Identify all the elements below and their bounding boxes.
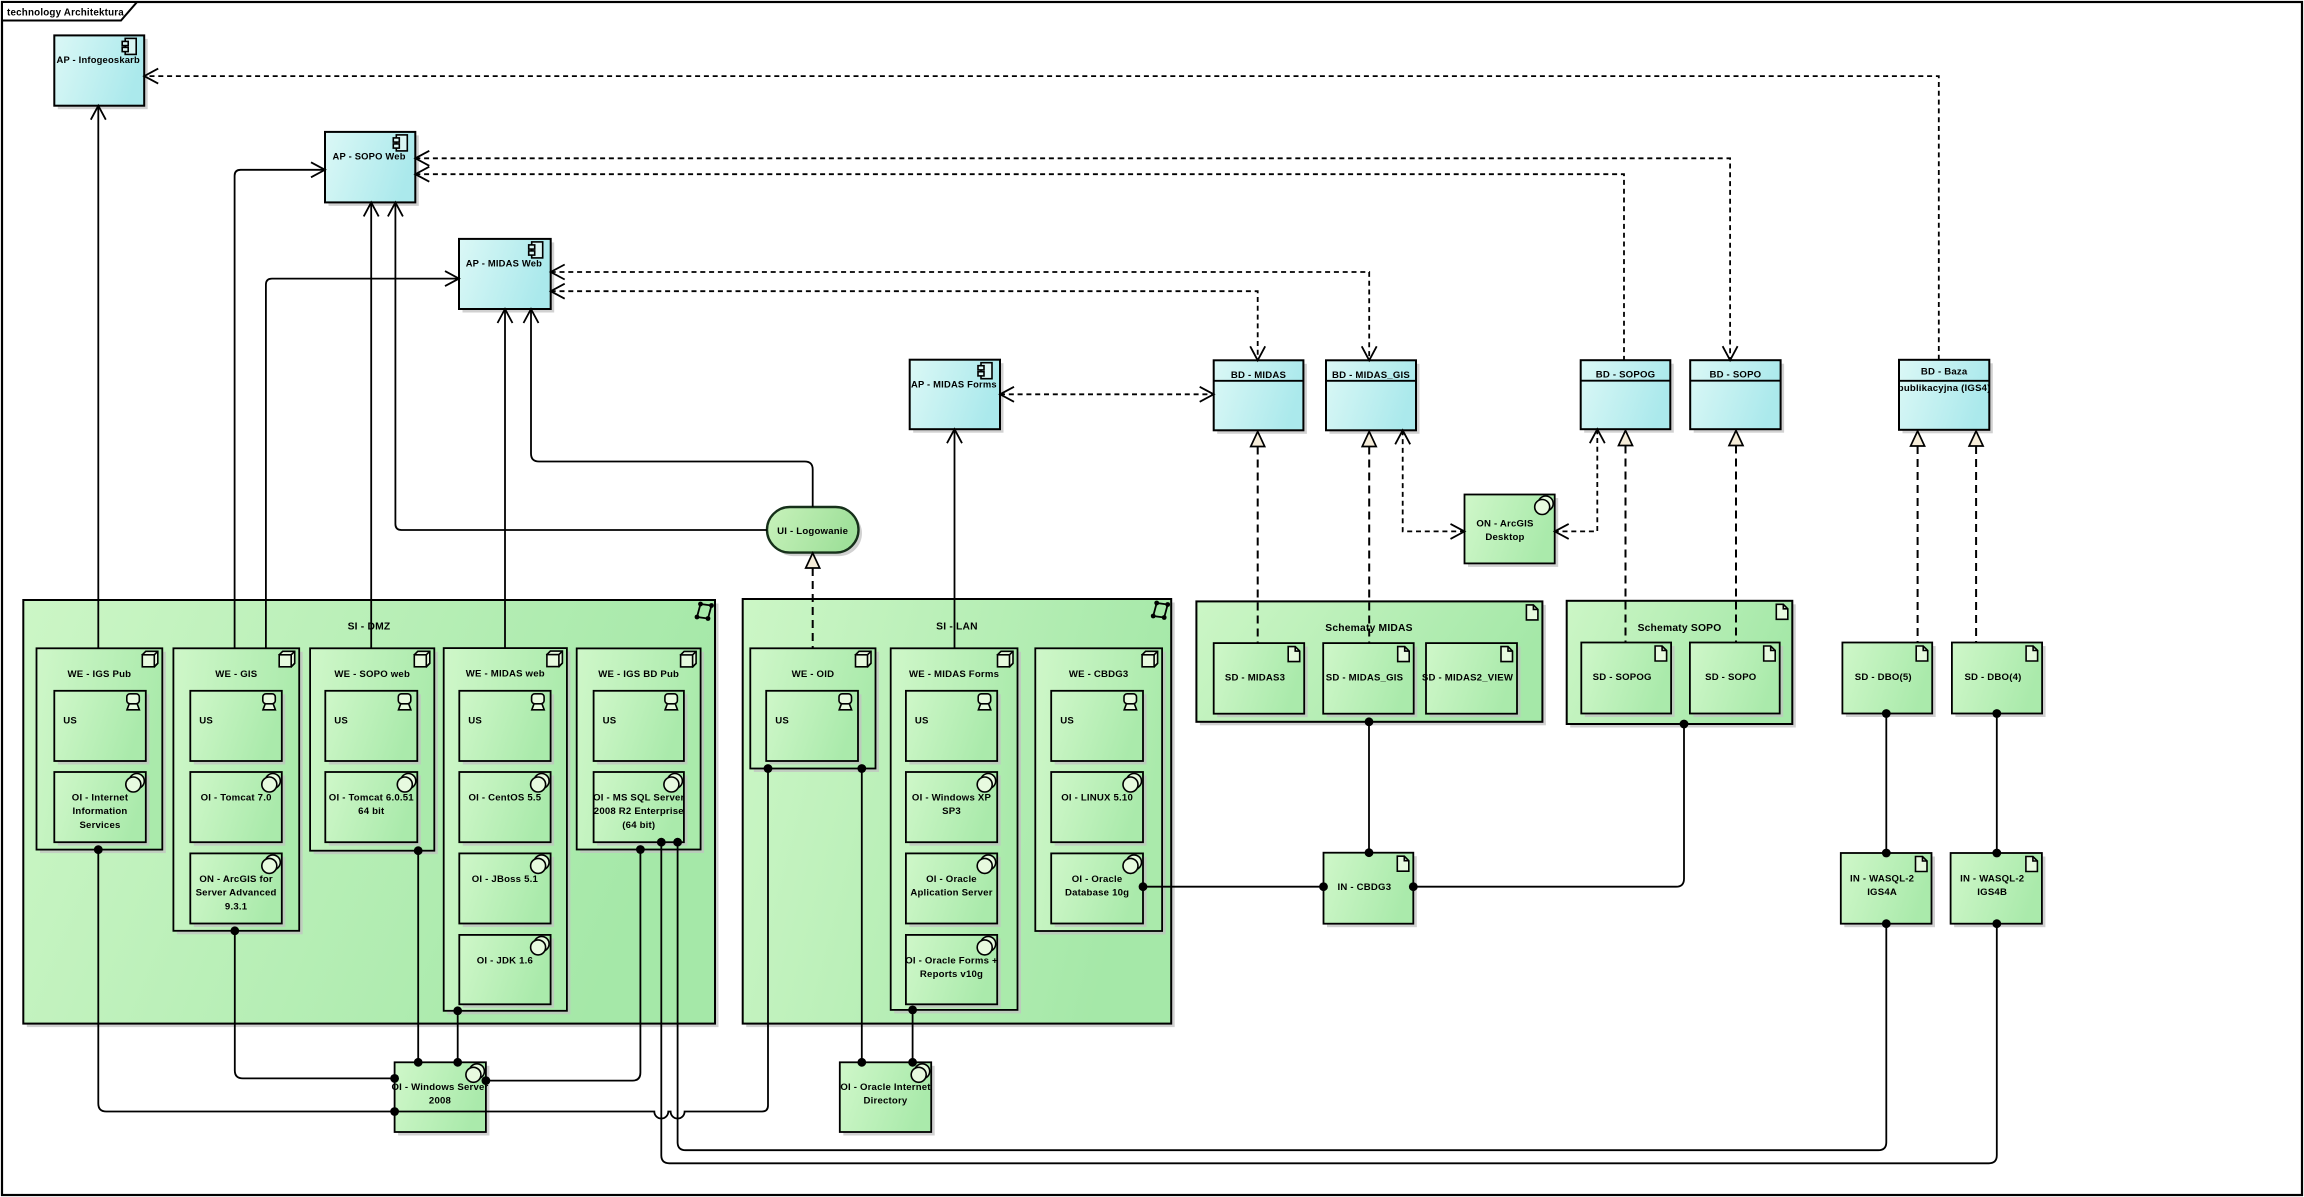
wire SD - DBO(4) to IN - WASQL-2 IGS4B [1996, 714, 1998, 854]
device WE - OID [750, 648, 879, 772]
system software OI - CentOS 5.5 [459, 772, 554, 846]
svg-text:OI - JBoss 5.1: OI - JBoss 5.1 [472, 874, 539, 885]
svg-text:IN - WASQL-2: IN - WASQL-2 [1850, 873, 1914, 884]
wire WE - MIDAS web to AP - MIDAS Web (bottom) [504, 309, 506, 648]
svg-text:64 bit: 64 bit [358, 806, 385, 817]
device WE - IGS Pub [37, 648, 166, 853]
svg-text:US: US [915, 715, 929, 726]
svg-text:IN - WASQL-2: IN - WASQL-2 [1960, 873, 2024, 884]
realization SD - MIDAS3 to BD - MIDAS [1257, 447, 1259, 644]
svg-text:WE - GIS: WE - GIS [215, 669, 258, 680]
artifact IN - WASQL-2 IGS4A [1841, 853, 1935, 927]
svg-text:OI - Oracle: OI - Oracle [926, 874, 977, 885]
artifact group Schematy MIDAS [1196, 601, 1546, 725]
svg-text:Database 10g: Database 10g [1065, 888, 1129, 899]
wire WE - GIS to AP - SOPO Web (left) [235, 170, 325, 649]
artifact SD - MIDAS_GIS [1323, 643, 1417, 717]
wire Schematy MIDAS to IN - CBDG3 [1368, 722, 1370, 853]
system software OI - Tomcat 6.0.51 64 bit [325, 772, 421, 846]
artifact SD - MIDAS3 [1214, 643, 1308, 717]
svg-text:publikacyjna (IGS4): publikacyjna (IGS4) [1898, 383, 1991, 394]
system software ON - ArcGIS Desktop [1465, 495, 1559, 567]
svg-text:OI - MS SQL Server: OI - MS SQL Server [593, 793, 684, 804]
svg-text:SD - DBO(5): SD - DBO(5) [1855, 672, 1912, 683]
dashed wire BD - MIDAS_GIS to ON - ArcGIS Desktop [1403, 430, 1465, 531]
svg-text:SD - MIDAS_GIS: SD - MIDAS_GIS [1326, 672, 1404, 683]
svg-text:BD - MIDAS: BD - MIDAS [1231, 370, 1287, 381]
wire IN - CBDG3 to Schematy SOPO [1413, 724, 1684, 887]
svg-text:US: US [199, 715, 213, 726]
component AP - Infogeoskarb [54, 35, 147, 109]
device WE - MIDAS web [444, 648, 571, 1014]
system software OI - JBoss 5.1 [459, 853, 554, 927]
svg-text:2008: 2008 [429, 1096, 452, 1107]
svg-text:OI - Oracle Internet: OI - Oracle Internet [840, 1082, 931, 1093]
use case UI - Logowanie [767, 507, 862, 556]
system software OI - Oracle Forms + Reports v10g [905, 935, 1000, 1008]
svg-text:Aplication Server: Aplication Server [910, 888, 992, 899]
wire OI - Oracle Database 10g to IN - CBDG3 [1143, 886, 1324, 888]
artifact SD - DBO(4) [1952, 643, 2046, 718]
wire WE - SOPO web to OI - Windows Server 2008 [417, 851, 419, 1063]
wire OI - MS SQL Server to IN - WASQL-2 IGS4A (upper route) [678, 842, 1887, 1150]
node US (WE - GIS) [190, 691, 285, 765]
svg-text:OI - Internet: OI - Internet [72, 793, 129, 804]
svg-text:US: US [63, 715, 77, 726]
wire WE - IGS Pub to AP - Infogeoskarb [97, 106, 99, 649]
svg-text:OI - Windows Server: OI - Windows Server [391, 1082, 488, 1093]
wire WE - GIS to OI - Windows Server 2008 [235, 931, 395, 1079]
svg-text:OI - JDK 1.6: OI - JDK 1.6 [477, 955, 533, 966]
system software OI - Windows Server 2008 [391, 1062, 489, 1135]
component AP - MIDAS Forms [910, 360, 1004, 433]
svg-text:IGS4A: IGS4A [1867, 887, 1897, 898]
svg-text:IGS4B: IGS4B [1977, 887, 2007, 898]
dashed wire BD - MIDAS to AP - MIDAS Web [551, 291, 1258, 360]
artifact SD - SOPOG [1581, 643, 1674, 718]
wire WE - OID to OI - Windows Server 2008 (with line hops) [395, 769, 768, 1119]
svg-text:Reports v10g: Reports v10g [920, 969, 983, 980]
svg-text:Directory: Directory [864, 1096, 908, 1107]
system software ON - ArcGIS for Server Advanced 9.3.1 [190, 853, 285, 927]
system software OI - Windows XP SP3 [906, 772, 1001, 846]
realization SD - MIDAS_GIS to BD - MIDAS_GIS [1368, 447, 1370, 644]
svg-text:WE - MIDAS Forms: WE - MIDAS Forms [909, 669, 999, 680]
dashed wire BD - SOPOG to ON - ArcGIS Desktop [1555, 429, 1598, 531]
wire OI - MS SQL Server to IN - WASQL-2 IGS4B (lower route) [661, 842, 1997, 1163]
svg-text:technology Architektura: technology Architektura [7, 8, 124, 19]
realization SD - DBO(5) to BD - Baza publikacyjna [1917, 446, 1919, 643]
artifact IN - WASQL-2 IGS4B [1951, 853, 2046, 927]
svg-text:(64 bit): (64 bit) [622, 820, 655, 831]
system software OI - Oracle Aplication Server [906, 853, 1001, 927]
svg-text:SI - LAN: SI - LAN [936, 622, 978, 633]
realization SD - SOPOG to BD - SOPOG [1625, 446, 1627, 643]
realization WE - OID to UI - Logowanie [812, 568, 814, 648]
wire WE - OID to OI - Oracle Internet Directory [861, 769, 863, 1063]
system software OI - Oracle Database 10g [1051, 853, 1146, 927]
wire UI - Logowanie to AP - SOPO Web (bottom) [395, 202, 767, 530]
svg-text:Schematy SOPO: Schematy SOPO [1638, 623, 1722, 634]
svg-text:WE - MIDAS web: WE - MIDAS web [466, 669, 545, 680]
system software OI - Tomcat 7.0 [190, 772, 285, 846]
svg-text:SD - MIDAS2_VIEW: SD - MIDAS2_VIEW [1422, 672, 1514, 683]
svg-text:US: US [468, 715, 482, 726]
svg-text:OI - Oracle: OI - Oracle [1072, 874, 1123, 885]
node US (WE - IGS Pub) [54, 691, 149, 765]
artifact SD - DBO(5) [1842, 643, 1935, 718]
svg-text:BD - Baza: BD - Baza [1921, 366, 1968, 377]
execution environment SI - LAN [743, 599, 1175, 1027]
svg-text:US: US [1060, 715, 1074, 726]
database node BD - Baza [1898, 360, 1993, 434]
dashed wire BD - SOPOG to AP - SOPO Web [415, 174, 1624, 360]
node US (WE - MIDAS web) [459, 691, 554, 765]
svg-text:Information: Information [73, 806, 128, 817]
node US (WE - CBDG3) [1051, 691, 1146, 765]
svg-text:Server Advanced: Server Advanced [196, 888, 277, 899]
node US (WE - OID) [766, 691, 861, 765]
svg-text:OI - LINUX 5.10: OI - LINUX 5.10 [1061, 793, 1133, 804]
svg-text:UI - Logowanie: UI - Logowanie [777, 526, 848, 537]
frame tab label: technology Architektura [2, 2, 137, 21]
database node BD - MIDAS_GIS [1326, 360, 1420, 434]
svg-text:AP - Infogeoskarb: AP - Infogeoskarb [56, 54, 140, 65]
svg-text:OI - Windows XP: OI - Windows XP [912, 793, 992, 804]
execution environment SI - DMZ [23, 600, 718, 1027]
wire WE - GIS to AP - MIDAS Web (left) [266, 279, 459, 649]
system software OI - Internet Information Services [54, 772, 149, 846]
device WE - MIDAS Forms [891, 648, 1021, 1013]
svg-text:OI - Tomcat 6.0.51: OI - Tomcat 6.0.51 [329, 793, 414, 804]
svg-text:2008 R2 Enterprise: 2008 R2 Enterprise [594, 806, 684, 817]
wire WE - MIDAS web to OI - Windows Server 2008 [457, 1011, 459, 1063]
artifact IN - CBDG3 [1324, 853, 1417, 928]
svg-text:SD - SOPO: SD - SOPO [1705, 672, 1757, 683]
svg-text:OI - Tomcat 7.0: OI - Tomcat 7.0 [201, 793, 272, 804]
wire WE - IGS BD Pub to OI - Windows Server 2008 [486, 850, 641, 1081]
artifact group Schematy SOPO [1567, 601, 1796, 728]
svg-text:9.3.1: 9.3.1 [225, 901, 248, 912]
node US (WE - MIDAS Forms) [906, 691, 1001, 765]
svg-text:Services: Services [79, 820, 120, 831]
svg-text:WE - OID: WE - OID [792, 669, 835, 680]
database node BD - SOPO [1690, 360, 1784, 433]
system software OI - Oracle Internet Directory [840, 1062, 935, 1135]
svg-text:ON - ArcGIS: ON - ArcGIS [1476, 518, 1534, 529]
component AP - MIDAS Web [459, 239, 554, 313]
wire WE - IGS Pub to OI - Windows Server 2008 [98, 850, 394, 1112]
device WE - SOPO web [310, 648, 438, 854]
node US (WE - IGS BD Pub) [594, 691, 688, 765]
component AP - SOPO Web [325, 132, 419, 206]
svg-text:ON - ArcGIS for: ON - ArcGIS for [199, 874, 273, 885]
dashed wire BD - Baza publikacyjna to AP - Infogeoskarb [144, 76, 1939, 360]
realization SD - SOPO to BD - SOPO [1735, 446, 1737, 643]
svg-text:AP - SOPO Web: AP - SOPO Web [333, 151, 406, 162]
svg-text:US: US [334, 715, 348, 726]
svg-text:IN - CBDG3: IN - CBDG3 [1338, 882, 1392, 893]
node US (WE - SOPO web) [325, 691, 421, 765]
svg-text:Desktop: Desktop [1485, 532, 1524, 543]
svg-text:SI - DMZ: SI - DMZ [348, 622, 391, 633]
artifact SD - SOPO [1690, 643, 1783, 718]
svg-text:OI - Oracle Forms +: OI - Oracle Forms + [905, 955, 998, 966]
system software OI - LINUX 5.10 [1051, 772, 1146, 846]
svg-text:AP - MIDAS Web: AP - MIDAS Web [466, 258, 542, 269]
svg-text:SP3: SP3 [942, 806, 961, 817]
system software OI - MS SQL Server 2008 R2 Enterprise (64 bit) [593, 772, 687, 846]
wire WE - SOPO web to AP - SOPO Web (bottom) [370, 202, 372, 648]
device WE - CBDG3 [1035, 648, 1165, 934]
svg-text:US: US [775, 715, 789, 726]
wire SD - DBO(5) to IN - WASQL-2 IGS4A [1885, 714, 1887, 854]
device WE - GIS [173, 648, 302, 934]
svg-text:AP - MIDAS Forms: AP - MIDAS Forms [911, 379, 997, 390]
database node BD - MIDAS [1214, 360, 1307, 434]
svg-text:US: US [603, 715, 617, 726]
svg-text:WE - IGS BD Pub: WE - IGS BD Pub [598, 669, 679, 680]
svg-text:BD - MIDAS_GIS: BD - MIDAS_GIS [1332, 370, 1410, 381]
dashed wire BD - MIDAS_GIS to AP - MIDAS Web [551, 272, 1369, 360]
svg-text:WE - IGS Pub: WE - IGS Pub [68, 669, 132, 680]
svg-text:BD - SOPO: BD - SOPO [1709, 370, 1761, 381]
svg-text:SD - MIDAS3: SD - MIDAS3 [1225, 672, 1285, 683]
realization SD - DBO(4) to BD - Baza publikacyjna [1975, 446, 1977, 643]
svg-text:WE - SOPO web: WE - SOPO web [334, 669, 410, 680]
wire WE - MIDAS Forms to AP - MIDAS Forms [954, 429, 956, 648]
wire WE - MIDAS Forms to OI - Oracle Internet Directory [912, 1010, 914, 1062]
dashed wire BD - SOPO to AP - SOPO Web [415, 158, 1730, 360]
system software OI - JDK 1.6 [459, 935, 554, 1008]
database node BD - SOPOG [1581, 360, 1674, 433]
svg-text:OI - CentOS 5.5: OI - CentOS 5.5 [468, 793, 541, 804]
svg-text:SD - DBO(4): SD - DBO(4) [1964, 672, 2021, 683]
wire UI - Logowanie to AP - MIDAS Web (bottom) [531, 309, 813, 507]
dashed wire AP - MIDAS Forms to BD - MIDAS [1000, 393, 1214, 395]
svg-text:BD - SOPOG: BD - SOPOG [1596, 370, 1656, 381]
artifact SD - MIDAS2_VIEW [1422, 643, 1521, 717]
device WE - IGS BD Pub [577, 648, 704, 853]
svg-text:SD - SOPOG: SD - SOPOG [1593, 672, 1652, 683]
svg-text:WE - CBDG3: WE - CBDG3 [1069, 669, 1129, 680]
